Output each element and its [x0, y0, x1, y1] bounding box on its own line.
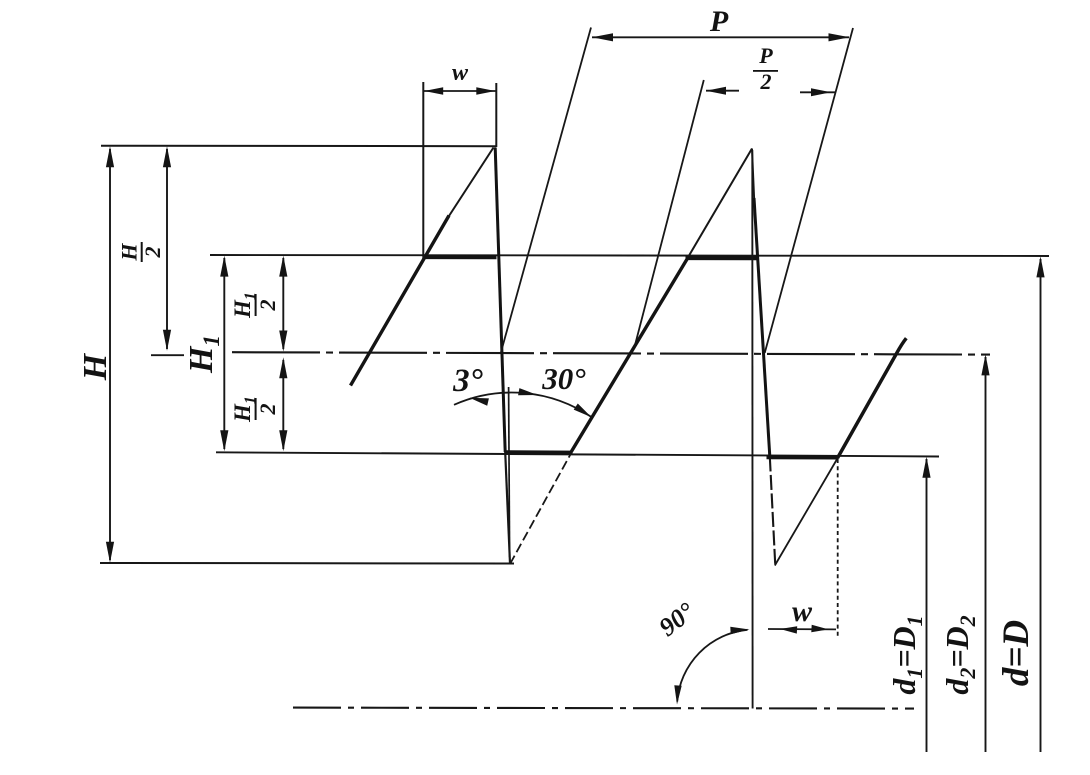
label P/2 (fraction)	[753, 43, 778, 94]
middle tooth steep 3deg flank thin tip at apex	[752, 149, 754, 203]
right groove root flat (thick)	[767, 455, 839, 459]
label d1=D1 (rotated)	[886, 615, 927, 694]
P/2 left extension line (slanted)	[635, 80, 704, 347]
3deg outside arrow (right of vertical reference)	[518, 388, 537, 395]
middle tooth 30deg flank extension below root to groove apex (thin)	[510, 453, 572, 565]
P dimension line	[592, 36, 849, 38]
d1=D1 arrow up	[922, 457, 930, 478]
left steep flank extension below root (thin)	[505, 452, 510, 564]
thread axis centerline (dash-dot)	[293, 708, 914, 709]
w bottom arrow right	[811, 625, 828, 632]
svg-text:H: H	[117, 243, 142, 262]
H dimension arrow down	[106, 542, 114, 563]
middle tooth 30deg flank (thick working part)	[571, 258, 689, 454]
svg-text:P: P	[758, 43, 773, 68]
svg-text:H: H	[77, 352, 114, 381]
3deg outside arrow (left of steep flank)	[470, 398, 489, 406]
P/2 right arrow	[811, 88, 831, 96]
major diameter line d=D (crest flat level)	[210, 255, 1049, 256]
P arrow left	[592, 33, 613, 41]
svg-text:3°: 3°	[452, 363, 483, 399]
H/2 arrow up	[163, 146, 171, 167]
w top arrow left	[424, 87, 443, 95]
middle tooth 30deg flank extension to apex (thin)	[687, 149, 752, 260]
crest line of fundamental triangle (outer diameter construction line)	[101, 145, 496, 148]
svg-text:2: 2	[760, 69, 772, 94]
d=D arrow up	[1036, 256, 1044, 277]
svg-text:P: P	[709, 5, 729, 38]
label H1	[183, 335, 224, 374]
d1=D1 dimension line	[926, 459, 928, 752]
right tooth 30deg flank extension below root from groove apex (thin)	[775, 458, 838, 566]
svg-text:d=D: d=D	[996, 620, 1037, 686]
middle steep flank extension below root (thin)	[770, 457, 776, 567]
w top right extension line	[495, 83, 497, 147]
bottom line of fundamental triangle (height H level)	[100, 562, 514, 565]
svg-text:2: 2	[255, 300, 280, 312]
middle tooth crest flat (thick)	[686, 256, 759, 260]
H/2 tick at pitch line	[151, 354, 184, 356]
middle tooth steep 3deg flank (thick)	[754, 198, 770, 457]
P/2 left dimension segment	[706, 90, 739, 92]
H dimension arrow up	[106, 146, 114, 167]
svg-text:d1=D1: d1=D1	[886, 615, 927, 694]
H1/2 upper arrow up	[279, 256, 287, 277]
label H1/2 upper (rotated fraction)	[230, 292, 280, 319]
d=D dimension line	[1040, 259, 1042, 752]
H1/2 upper dimension line	[282, 258, 284, 349]
right tooth 30deg flank (thick) with curled end	[838, 338, 907, 458]
90deg arrow at axis	[674, 685, 681, 704]
H1/2 lower arrow down	[279, 430, 287, 451]
label H/2 (rotated fraction)	[117, 242, 166, 262]
svg-text:2: 2	[140, 247, 165, 259]
w top dimension line	[424, 90, 496, 92]
H1 dimension line	[223, 258, 225, 449]
w bottom right extension line (dashed)	[837, 459, 839, 637]
svg-text:2: 2	[255, 404, 280, 416]
H1/2 upper arrow down	[279, 331, 287, 352]
left groove root flat (thick)	[505, 450, 573, 454]
w bottom arrow left	[780, 626, 797, 633]
P left extension line (slanted)	[501, 28, 591, 353]
label d=D (rotated)	[996, 620, 1037, 686]
svg-text:w: w	[452, 60, 469, 86]
d2=D2 dimension line	[985, 357, 987, 752]
w top left extension line	[422, 82, 424, 259]
svg-text:d2=D2: d2=D2	[939, 615, 980, 694]
30deg arrow at 30deg flank	[574, 404, 592, 418]
vertical reference line for 3deg angle	[509, 387, 510, 557]
svg-text:w: w	[792, 595, 813, 628]
minor diameter line d1=D1 (root level)	[216, 452, 939, 456]
pitch line / centerline d2=D2 (dash-dot)	[232, 352, 990, 354]
P right extension line (slanted)	[765, 28, 853, 353]
w top arrow right	[476, 87, 495, 95]
label d2=D2 (rotated)	[939, 615, 980, 694]
H1 arrow up	[220, 256, 228, 277]
H dimension line	[109, 149, 111, 560]
w bottom dimension line	[768, 628, 836, 630]
flank angle dimension arc	[454, 393, 592, 418]
P/2 left arrow	[706, 87, 726, 95]
H1 arrow down	[220, 430, 228, 451]
H1/2 lower dimension line	[282, 360, 284, 449]
H1/2 lower arrow up	[279, 357, 287, 378]
90deg dimension arc	[677, 630, 747, 702]
P arrow right	[829, 33, 850, 41]
left tooth crest flat (thick)	[424, 255, 497, 259]
left tooth steep 3deg flank (thick)	[495, 148, 505, 453]
label H1/2 lower (rotated fraction)	[230, 396, 280, 423]
H/2 arrow down	[163, 330, 171, 351]
vertical reference line for 90deg angle	[751, 150, 753, 709]
P/2 right dimension segment	[800, 91, 836, 93]
left tooth 30deg flank extension to crest apex (thin)	[447, 148, 494, 220]
H/2 dimension line	[166, 149, 168, 349]
90deg arrow at vertical line	[730, 627, 749, 634]
svg-text:30°: 30°	[541, 361, 586, 396]
d2=D2 arrow up	[981, 354, 989, 375]
left tooth 30deg flank (thick working part)	[351, 216, 450, 386]
